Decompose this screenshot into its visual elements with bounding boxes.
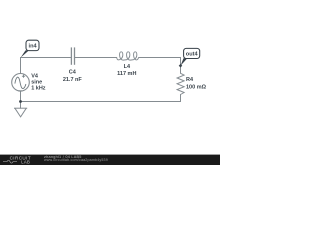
V4 sine symbol — [15, 77, 26, 88]
capacitor C4 — [71, 47, 74, 64]
node out4 box — [184, 48, 200, 58]
V4 minus sign — [18, 90, 21, 92]
wire ground stub — [20, 102, 22, 109]
junction out4 — [179, 64, 183, 68]
watermark bar — [0, 155, 220, 165]
wire bottom rail — [21, 101, 181, 103]
node out4 pointer — [181, 58, 188, 66]
svg-text:C4: C4 — [69, 70, 77, 76]
wire left: corner down to V4 top — [20, 58, 22, 74]
svg-text:in4: in4 — [29, 44, 38, 50]
wire left: V4 bottom to rail junction — [20, 91, 22, 101]
resistor R4 — [177, 73, 184, 94]
node in4 box — [26, 40, 39, 50]
svg-text:out4: out4 — [186, 52, 199, 58]
junction rail-ground — [19, 100, 22, 103]
node in4 pointer — [21, 50, 29, 57]
svg-text:100 mΩ: 100 mΩ — [186, 84, 207, 90]
svg-text:1 kHz: 1 kHz — [31, 85, 46, 91]
svg-text:117 mH: 117 mH — [117, 71, 136, 77]
voltage source V4 circle — [12, 74, 30, 92]
wire top: in4 corner to C4 left plate — [21, 57, 71, 59]
svg-text:R4: R4 — [186, 77, 194, 83]
ground — [14, 108, 27, 117]
wire top: L4 to out4 corner — [139, 58, 181, 66]
svg-text:LAB: LAB — [21, 159, 30, 164]
watermark logo wave — [3, 160, 17, 163]
wire top: C4 right plate to L4 — [75, 57, 117, 59]
svg-text:L4: L4 — [124, 64, 131, 70]
wire right: out4 junction to R4 top — [180, 66, 182, 74]
svg-text:www.circuitlab.com/caa2pamb4y5: www.circuitlab.com/caa2pamb4y539 — [44, 158, 108, 162]
svg-text:21.7 nF: 21.7 nF — [63, 77, 83, 83]
V4 plus sign — [22, 75, 25, 78]
wire right: R4 bottom to bottom rail corner — [180, 95, 182, 102]
inductor L4 — [117, 52, 139, 60]
